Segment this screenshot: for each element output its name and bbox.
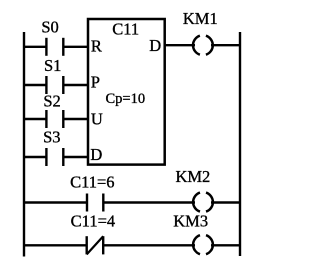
contact S0 right bar xyxy=(62,38,64,56)
counter block C11 box xyxy=(88,19,165,165)
wire C11=4 to coil KM3 xyxy=(103,244,195,246)
coil KM1 right arc xyxy=(206,36,213,55)
wire rail to S3 contact xyxy=(24,156,47,158)
contact S1 left bar xyxy=(45,76,47,94)
wire C11=6 to coil KM2 xyxy=(103,201,195,203)
svg-text:Cp=10: Cp=10 xyxy=(105,91,145,107)
coil KM3 left arc xyxy=(193,235,200,254)
contact C11=6 right bar xyxy=(102,194,104,212)
svg-text:KM1: KM1 xyxy=(183,9,218,28)
contact C11=4 left bar xyxy=(85,236,87,254)
wire rail to S1 contact xyxy=(24,84,47,86)
svg-text:C11=4: C11=4 xyxy=(71,211,115,230)
contact S2 left bar xyxy=(45,110,47,128)
svg-text:S2: S2 xyxy=(43,92,60,111)
svg-text:U: U xyxy=(91,110,103,129)
contact S3 left bar xyxy=(45,148,47,166)
contact C11=4 NC slash xyxy=(87,236,104,254)
right power rail xyxy=(239,32,241,256)
contact C11=4 right bar xyxy=(102,236,104,254)
svg-text:D: D xyxy=(149,36,161,55)
wire rail to S0 contact xyxy=(24,46,47,48)
wire rail to S2 contact xyxy=(24,118,47,120)
wire rail to contact C11=6 xyxy=(24,201,87,203)
svg-text:S0: S0 xyxy=(41,18,58,37)
wire S3 to D input xyxy=(63,156,89,158)
contact S0 left bar xyxy=(45,38,47,56)
svg-text:R: R xyxy=(91,36,102,55)
contact S3 right bar xyxy=(62,148,64,166)
wire coil KM3 to right rail xyxy=(211,244,240,246)
svg-text:P: P xyxy=(91,73,100,92)
contact C11=6 left bar xyxy=(86,194,88,212)
coil KM1 left arc xyxy=(193,36,200,55)
svg-text:D: D xyxy=(90,145,102,164)
wire S0 to R input xyxy=(63,46,89,48)
svg-text:KM2: KM2 xyxy=(175,167,210,186)
coil KM2 right arc xyxy=(206,193,213,212)
wire D output to coil KM1 xyxy=(165,44,195,46)
wire coil KM2 to right rail xyxy=(211,201,240,203)
wire S2 to U input xyxy=(63,118,89,120)
wire coil KM1 to right rail xyxy=(211,44,240,46)
wire S1 to P input xyxy=(63,84,89,86)
svg-text:KM3: KM3 xyxy=(173,212,208,231)
svg-text:S1: S1 xyxy=(44,56,61,75)
contact S2 right bar xyxy=(62,110,64,128)
svg-text:S3: S3 xyxy=(43,127,60,146)
wire rail to contact C11=4 xyxy=(24,244,87,246)
coil KM2 left arc xyxy=(193,193,200,212)
coil KM3 right arc xyxy=(206,235,213,254)
contact S1 right bar xyxy=(62,76,64,94)
svg-text:C11: C11 xyxy=(112,19,139,38)
left power rail xyxy=(23,32,25,257)
svg-text:C11=6: C11=6 xyxy=(70,172,114,191)
